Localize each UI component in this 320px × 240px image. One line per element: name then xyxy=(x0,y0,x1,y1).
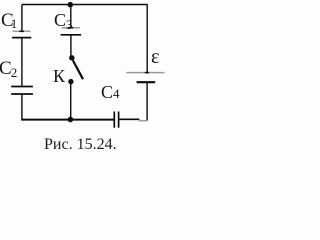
capacitor C1 lead-plate junction blob xyxy=(19,30,24,32)
capacitor C1 bottom plate xyxy=(12,37,31,39)
switch K lower contact dot xyxy=(68,79,73,84)
wire middle vertical C3 to switch xyxy=(70,35,72,56)
label epsilon (EMF) xyxy=(151,46,159,69)
wire gray smudge right of C4 xyxy=(138,120,146,122)
battery lead-plate junction blob xyxy=(145,72,149,74)
label C2 xyxy=(0,58,17,81)
battery long plate (gray) xyxy=(126,72,164,74)
label C3 xyxy=(54,10,73,33)
wire middle vertical from top node to C3 xyxy=(70,5,72,28)
capacitor C3 lead-plate junction blob xyxy=(68,27,73,29)
caption Fig. 15.24 xyxy=(44,136,117,154)
capacitor C4 left plate xyxy=(113,112,115,128)
capacitor C3 top plate (gray) xyxy=(62,27,80,29)
wire right vertical upper segment xyxy=(146,5,148,73)
label C1 xyxy=(1,10,17,32)
wire top horizontal xyxy=(22,4,148,6)
switch K lever xyxy=(73,60,83,79)
wire left vertical lower segment xyxy=(21,94,23,120)
capacitor C1 top plate (gray) xyxy=(13,30,31,32)
node junction bottom (dot) xyxy=(68,117,74,123)
battery short plate xyxy=(137,81,156,83)
wire left vertical middle segment xyxy=(21,38,23,87)
wire left vertical upper segment xyxy=(21,5,23,32)
node junction top (dot) xyxy=(68,2,74,8)
capacitor C3 bottom plate xyxy=(61,34,82,36)
capacitor C2 bottom plate xyxy=(11,93,33,95)
label K (switch) xyxy=(53,66,65,87)
wire middle vertical switch to bottom node xyxy=(70,84,72,120)
wire bottom horizontal left of C4 xyxy=(21,119,114,121)
wire bottom horizontal right of C4 xyxy=(119,118,140,120)
switch K upper contact dot xyxy=(69,55,74,60)
label C4 xyxy=(101,82,120,103)
capacitor C2 top plate xyxy=(11,86,33,88)
capacitor C4 right plate xyxy=(118,112,120,128)
wire right vertical lower segment xyxy=(146,82,148,120)
